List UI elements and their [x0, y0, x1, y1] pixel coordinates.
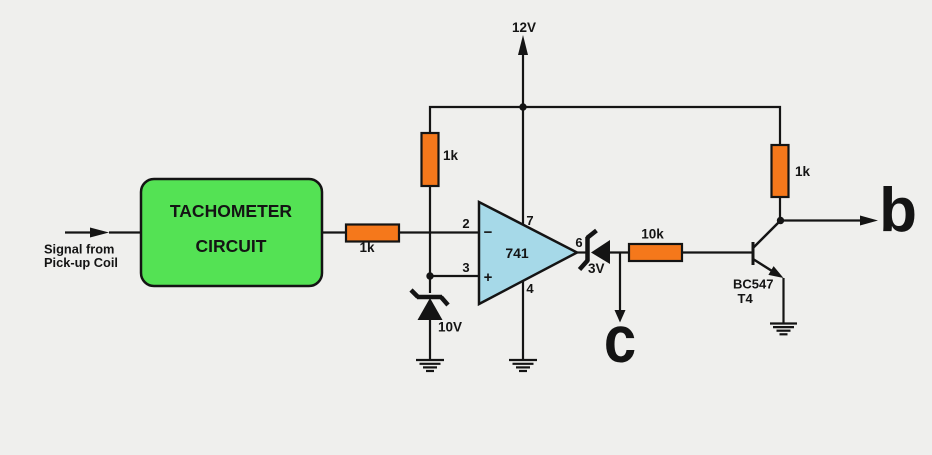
wire zener to resistor 10k: [610, 251, 630, 253]
op-amp U1 741: [479, 202, 577, 304]
zener diode D1 10V: [411, 290, 462, 335]
wire block to resistor R1: [322, 231, 347, 233]
wire R2 down to pin3 node and zener: [429, 186, 431, 293]
resistor R2 1k vertical left: [422, 133, 459, 186]
wire op-amp output pin 6: [577, 251, 588, 253]
svg-text:3V: 3V: [588, 261, 605, 276]
svg-text:3: 3: [462, 260, 469, 275]
12V supply arrow: [512, 20, 536, 107]
input signal arrow: [65, 228, 109, 238]
tachometer circuit block: [141, 179, 322, 286]
junction node at 12V rail: [519, 103, 526, 110]
ground middle (pin 4): [509, 360, 537, 371]
supply wire through op-amp pin7 to pin4 ground: [522, 107, 524, 360]
ground left: [416, 360, 444, 371]
zener diode D2 3V: [580, 231, 611, 277]
svg-text:7: 7: [526, 213, 533, 228]
wire arrow to tachometer block: [109, 231, 141, 233]
wire emitter down to ground: [782, 278, 784, 324]
wire collector to b arrow: [780, 216, 878, 226]
svg-text:TACHOMETER: TACHOMETER: [170, 201, 293, 221]
svg-text:741: 741: [505, 245, 529, 261]
label Signal from Pick-up Coil: [44, 242, 118, 271]
svg-text:T4: T4: [738, 291, 754, 306]
svg-text:1k: 1k: [359, 240, 375, 255]
svg-text:CIRCUIT: CIRCUIT: [196, 236, 267, 256]
wire R1 to op-amp pin 2: [399, 231, 480, 233]
wire collector up to resistor: [779, 197, 781, 222]
svg-text:Pick-up Coil: Pick-up Coil: [44, 255, 118, 270]
resistor R1 1k horizontal: [346, 225, 399, 256]
svg-text:10k: 10k: [641, 227, 664, 242]
top supply rail wire: [430, 107, 780, 146]
svg-text:6: 6: [575, 235, 582, 250]
svg-text:2: 2: [462, 216, 469, 231]
svg-text:+: +: [484, 269, 493, 286]
svg-text:1k: 1k: [795, 164, 811, 179]
svg-text:−: −: [484, 224, 493, 241]
resistor R4 1k vertical right: [772, 145, 811, 197]
wire node to op-amp pin 3: [430, 275, 480, 277]
svg-text:b: b: [879, 176, 917, 245]
svg-text:BC547: BC547: [733, 277, 773, 292]
transistor Q1 BC547 T4: [733, 221, 784, 306]
resistor R3 10k: [629, 227, 682, 262]
svg-text:10V: 10V: [438, 320, 462, 335]
wire 10k to transistor base: [682, 251, 752, 253]
wire zener to ground: [429, 318, 431, 360]
junction node collector: [777, 217, 784, 224]
ground right (emitter): [770, 324, 797, 335]
svg-text:1k: 1k: [443, 148, 459, 163]
svg-text:12V: 12V: [512, 20, 536, 35]
svg-text:4: 4: [526, 281, 534, 296]
wire down to c: [619, 253, 621, 313]
svg-text:c: c: [604, 304, 636, 377]
junction node pin3: [426, 272, 433, 279]
